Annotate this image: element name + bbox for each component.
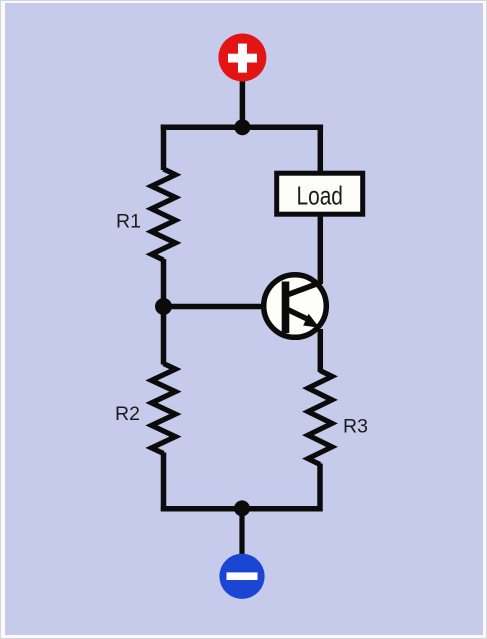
wire: top rail — [161, 125, 323, 131]
wire: transistor emitter to R3 — [318, 329, 324, 372]
svg-text:R3: R3 — [343, 416, 368, 438]
svg-text:R1: R1 — [116, 211, 141, 233]
wire: bottom rail — [161, 506, 320, 512]
node: top junction — [234, 119, 250, 135]
base bar — [282, 282, 290, 334]
emitter arrowhead — [303, 314, 319, 328]
wire: top rail to load — [318, 125, 324, 174]
negative supply terminal (-) — [219, 554, 264, 599]
resistor R2 — [152, 364, 176, 454]
svg-text:Load: Load — [296, 182, 342, 210]
transistor Q1 — [264, 275, 327, 338]
resistor R3 — [308, 371, 332, 465]
node: divider midpoint (base node) — [155, 298, 172, 315]
wire: base node to transistor base — [164, 304, 287, 310]
resistor R1 — [152, 169, 176, 260]
collector lead — [286, 282, 322, 295]
wire: base node down to R2 — [161, 305, 167, 365]
wire: R3 to bottom rail — [317, 464, 323, 512]
load box — [277, 173, 363, 214]
wire: top rail to R1 — [161, 125, 167, 171]
wire: R2 to bottom rail — [161, 453, 167, 512]
wire: positive terminal to top rail — [240, 78, 246, 130]
body circle — [264, 275, 327, 338]
positive supply terminal (+) — [218, 34, 266, 82]
wire: bottom junction to negative terminal — [239, 509, 244, 557]
svg-text:R2: R2 — [115, 403, 140, 425]
wire: load to transistor collector — [318, 213, 324, 284]
wire: R1 to base node — [161, 259, 167, 308]
emitter lead — [286, 309, 311, 321]
node: bottom junction — [234, 500, 250, 516]
